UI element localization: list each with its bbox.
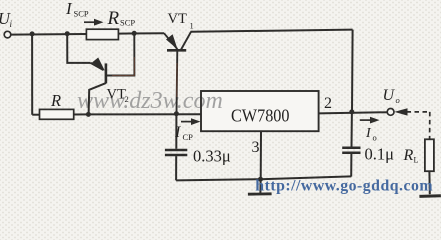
wire node C down for VT2 emitter (67, 34, 90, 63)
svg-text:SCP: SCP (74, 9, 89, 19)
wire VT1 base down to node D (176, 50, 179, 113)
wire pin2 output to Uo terminal (319, 112, 388, 113)
svg-text:U: U (383, 87, 396, 104)
label Io (365, 126, 377, 142)
IC U1 CW7800 border (201, 91, 319, 131)
svg-text:2: 2 (324, 95, 332, 112)
ground at pin3 (248, 192, 272, 195)
svg-text:VT: VT (107, 87, 126, 103)
svg-text:L: L (414, 156, 419, 165)
wire VT1 collector to top-right corner (191, 30, 353, 32)
label Uo (383, 87, 400, 105)
wire VT2 collector loop to node E (106, 34, 134, 76)
arrowhead into Uo terminal (394, 108, 407, 115)
svg-text:o: o (373, 133, 377, 143)
wire capacitor C1 top lead (175, 114, 177, 149)
svg-text:R: R (50, 91, 61, 110)
svg-text:0.33μ: 0.33μ (193, 146, 231, 165)
ground at RL (419, 194, 441, 198)
svg-text:I: I (65, 0, 73, 18)
svg-text:VT: VT (168, 11, 187, 27)
wire pin3 down (260, 131, 262, 179)
svg-text:I: I (174, 124, 181, 141)
dashed feedback from Uo to RL (407, 112, 431, 139)
wire capacitor C1 bottom lead (175, 156, 177, 180)
wire RL bottom lead (428, 171, 430, 194)
wire VT2 emitter lead to node B (89, 83, 106, 114)
svg-text:R: R (403, 147, 414, 164)
resistor R (40, 109, 74, 119)
label ICP (174, 124, 193, 142)
svg-text:i: i (10, 19, 13, 29)
junction node A (30, 31, 35, 36)
transistor VT2 (PNP protection) (92, 58, 106, 84)
junction node B (86, 112, 91, 117)
resistor RL (425, 139, 434, 171)
svg-text:3: 3 (252, 139, 260, 156)
wire node A down to resistor R (31, 34, 33, 115)
wire right vertical drop to output node (351, 30, 354, 112)
svg-text:0.1μ: 0.1μ (365, 144, 395, 163)
label ISCP (65, 0, 89, 18)
wire input Ui to RSCP left (11, 33, 87, 36)
wire RSCP right to VT1 emitter (118, 32, 164, 34)
transistor VT1 (PNP pass) (164, 32, 191, 51)
svg-text:1: 1 (190, 21, 194, 31)
svg-text:o: o (396, 95, 400, 105)
wire R right stub to node B (74, 113, 89, 115)
svg-text:SCP: SCP (120, 18, 135, 28)
label VT2 (107, 87, 129, 105)
junction node C (65, 31, 70, 36)
junction rail pin3 node (258, 177, 263, 182)
arrow ISCP current (84, 19, 104, 26)
wire capacitor C2 to bottom rail (350, 154, 352, 177)
resistor RSCP (86, 29, 118, 39)
arrow Io current (360, 117, 380, 124)
wire output node down to capacitor C2 (351, 112, 353, 147)
label Ui (0, 9, 13, 29)
svg-text:I: I (365, 126, 372, 141)
junction output node (349, 109, 354, 114)
svg-text:R: R (107, 8, 120, 29)
arrow ICP current (181, 118, 201, 125)
wire VT2 emitter diagonal (91, 63, 104, 70)
label RSCP (107, 8, 136, 29)
wire ground stub pin3 (259, 179, 261, 193)
terminal Ui (4, 31, 11, 38)
svg-text:CP: CP (183, 132, 194, 142)
wire R left stub (32, 114, 39, 116)
capacitor C1 0.33u plates (165, 150, 187, 155)
svg-text:http://www.go-gddq.com: http://www.go-gddq.com (255, 177, 433, 194)
svg-text:2: 2 (125, 94, 129, 104)
terminal Uo (387, 109, 394, 116)
svg-text:CW7800: CW7800 (231, 105, 290, 125)
IC U1 CW7800 body fill (201, 91, 319, 131)
wire node B to CW7800 input pin (88, 113, 201, 115)
junction node D (174, 111, 179, 116)
label RL (403, 147, 419, 165)
label VT1 (168, 11, 194, 31)
capacitor C2 0.1u plates (342, 148, 360, 153)
wire bottom rail (176, 176, 351, 180)
junction node E (132, 31, 137, 36)
